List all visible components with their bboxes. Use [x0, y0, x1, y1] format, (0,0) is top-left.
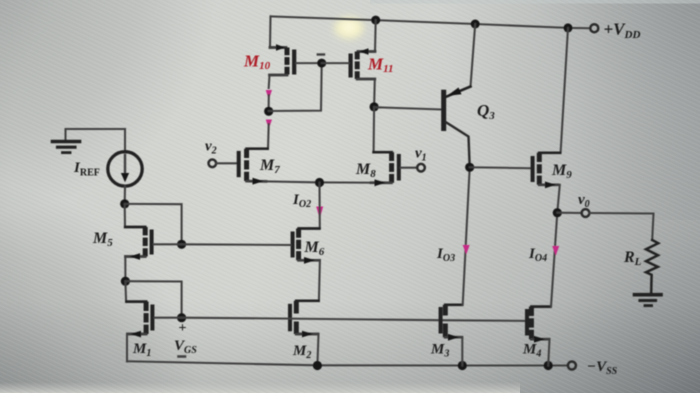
- wire: node B down to M8 drain: [374, 107, 392, 152]
- junction: Q3 collector node: [465, 163, 474, 172]
- transistor M3 channel: [443, 305, 448, 337]
- transistor M4 channel: [529, 307, 534, 340]
- junction: M7/M8 common source node: [315, 178, 324, 187]
- wire: v0 node down to M4 drain (IO4 branch): [551, 213, 557, 307]
- transistor M10 drain stub: [270, 74, 288, 77]
- junction: node B (M11 drain / M8 drain / Q3 base): [370, 102, 379, 111]
- terminal v0: [582, 209, 590, 217]
- junction: M9 drain tap on rail: [564, 23, 573, 32]
- terminal v2: [209, 160, 217, 168]
- transistor M9 source stub with arrow: [539, 183, 558, 186]
- wire: node B to Q3 base: [374, 107, 441, 109]
- transistor Q3 (PNP BJT) base bar: [441, 90, 446, 131]
- junction: M1 gate tie: [177, 313, 186, 322]
- transistor M11 drain stub: [357, 78, 375, 81]
- wire: common source node down to M6 drain: [299, 183, 320, 229]
- current arrow (magenta) IO3: [463, 245, 470, 255]
- junction: Q3 emitter tap on rail: [471, 20, 480, 29]
- minus mark above gate node: [318, 53, 324, 55]
- current source IREF: [108, 152, 142, 186]
- wire: bottom gate rail M1-M2-M3-M4: [182, 318, 526, 321]
- wire: VDD rail to M10 source: [269, 16, 272, 47]
- resistor RL: [646, 240, 658, 293]
- transistor M11 (PMOS) source stub with arrow: [358, 50, 375, 53]
- transistor M2 channel: [294, 301, 299, 334]
- wire: VDD rail to Q3 emitter: [471, 24, 476, 87]
- junction: node C (IREF / M5 drain / M5 gate tie): [120, 199, 129, 208]
- wire: v0 node to terminal: [557, 212, 581, 214]
- ground (below RL): [635, 293, 662, 297]
- wire: node A down to M7 drain: [247, 124, 269, 149]
- transistor M10 gate bar: [292, 50, 296, 75]
- junction: M3 source on rail: [458, 361, 467, 370]
- transistor M10 channel: [285, 48, 290, 75]
- junction: M10/M11 common gate node: [317, 59, 326, 68]
- junction: v0 output node: [553, 208, 562, 217]
- wire: M10 drain to node A: [268, 95, 270, 111]
- junction: node A (M10 drain / M7 drain / gate tie): [264, 107, 273, 116]
- current arrow (magenta) IO2: [316, 207, 323, 219]
- transistor M5 channel: [143, 227, 148, 257]
- transistor M5 source stub with arrow: [126, 255, 146, 258]
- wire: M11 gate to common gate node: [322, 62, 349, 64]
- transistor M6 source stub with arrow: [299, 259, 320, 262]
- transistor M9 channel: [537, 153, 542, 185]
- wire: Q3 collector node down to M3 drain (IO3 branch): [463, 167, 470, 304]
- wire: VDD rail to M11 source: [374, 20, 377, 51]
- wire: M1 gate to tie: [155, 317, 182, 319]
- transistor M8 source with arrow from common node: [371, 181, 391, 184]
- wire: IREF to node C: [124, 186, 126, 204]
- transistor M6 channel: [296, 229, 301, 261]
- junction: node D (M5 source / M1 drain / M1 gate tie): [121, 277, 130, 286]
- transistor M4 gate bar: [525, 309, 529, 336]
- current arrow (magenta) into M7 drain: [266, 120, 272, 129]
- transistor M4 source stub with arrow: [531, 338, 549, 341]
- transistor M9 gate bar: [531, 156, 535, 182]
- junction: M2 source on rail: [313, 361, 322, 370]
- transistor M3 gate bar: [439, 307, 443, 334]
- transistor M3 drain stub: [445, 304, 462, 306]
- transistor M4 drain stub: [531, 306, 551, 308]
- transistor M11 channel: [355, 52, 360, 80]
- terminal -VSS: [568, 362, 576, 370]
- wire: M5 gate to tie: [154, 243, 182, 245]
- wire: +VDD top rail: [271, 16, 591, 28]
- transistor M11 gate bar: [349, 54, 353, 78]
- wire: M10 gate to common gate node: [296, 62, 322, 64]
- terminal +VDD: [590, 24, 598, 32]
- current arrow (magenta) IO4: [552, 246, 559, 256]
- svg-text:+: +: [179, 321, 187, 336]
- junction: M5 gate tie: [177, 240, 186, 249]
- current arrow (magenta) M10 drain current: [266, 90, 272, 100]
- wire: M5/M6 gate rail: [182, 243, 291, 246]
- transistor M1 channel: [144, 302, 149, 334]
- terminal v1: [417, 164, 425, 172]
- transistor M2 gate bar: [288, 304, 292, 332]
- wire: M9 gate from Q3 collector node: [470, 166, 531, 169]
- junction: M11 source tap on rail: [371, 16, 380, 25]
- transistor Q3 emitter with arrow: [446, 87, 471, 97]
- wire: -VSS bottom rail: [127, 361, 568, 365]
- wire: v0 terminal to RL: [590, 213, 654, 240]
- wire: node A to gate-net vertical: [269, 63, 322, 111]
- wire: node C to M5 gate tie: [125, 204, 182, 244]
- current source IREF wire from ground: [124, 129, 126, 152]
- transistor M1 source stub with arrow: [127, 333, 146, 336]
- transistor Q3 collector: [446, 122, 470, 167]
- wire: M8 gate to terminal v1: [401, 167, 418, 169]
- transistor M7 channel: [244, 149, 249, 181]
- junction: M4 source on rail: [544, 361, 553, 370]
- transistor M10 (PMOS) source stub with arrow: [270, 46, 286, 49]
- wire: node C down to M5 drain: [125, 204, 145, 227]
- transistor M8 gate bar: [397, 154, 401, 181]
- transistor M5 gate bar: [150, 230, 154, 255]
- transistor M7 gate bar: [237, 151, 241, 177]
- wire: v2 to M7 gate: [216, 162, 237, 164]
- transistor M6 gate bar: [291, 232, 295, 258]
- transistor M2 drain stub: [297, 300, 319, 302]
- wire: node D down to M1 drain: [125, 281, 146, 301]
- wire: VDD rail down to M9 drain: [541, 28, 569, 153]
- ground (top-left): [66, 129, 126, 141]
- transistor M2 source stub with arrow: [296, 333, 318, 336]
- transistor M1 gate bar: [150, 305, 154, 331]
- transistor M3 source stub with arrow: [445, 336, 462, 339]
- wire: node D to M1 gate tie: [125, 281, 181, 318]
- transistor M7 source with arrow to common node: [247, 180, 266, 183]
- transistor M8 channel: [389, 152, 394, 183]
